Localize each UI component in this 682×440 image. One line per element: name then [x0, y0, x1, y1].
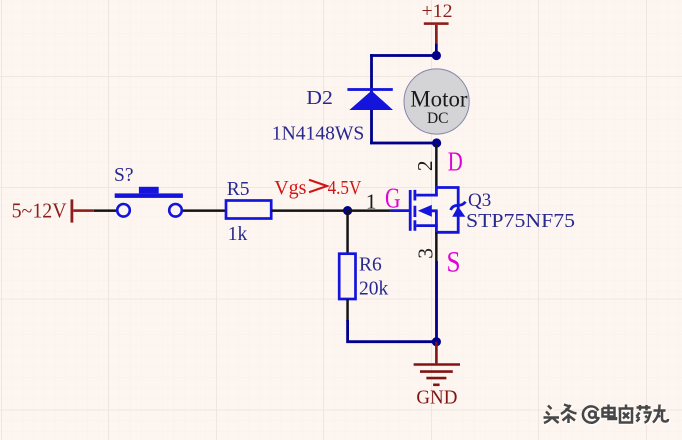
diode D2 [347, 88, 393, 110]
wire: R6 to bottom rail (navy) [348, 320, 437, 342]
wire: top rail to diode branch [370, 54, 437, 57]
transistor Q3 MOSFET symbol [390, 186, 465, 232]
node: ground junction [432, 337, 441, 346]
arrow line + source vertical [431, 211, 438, 233]
motor M (DC motor) [404, 69, 469, 134]
svg-text:20k: 20k [359, 279, 389, 300]
wire: diode branch vertical [370, 54, 373, 144]
svg-text:STP75NF75: STP75NF75 [466, 211, 575, 232]
resistor R6 [339, 254, 355, 299]
wire: R6 bottom black part [346, 299, 349, 321]
svg-text:1N4148WS: 1N4148WS [272, 124, 365, 145]
svg-text:Motor: Motor [410, 86, 467, 112]
wire: source down to ground junction (navy) [435, 261, 438, 342]
ground symbol [414, 342, 460, 385]
label Vgs>4.5V [274, 177, 361, 199]
source link [416, 224, 438, 227]
svg-text:1k: 1k [228, 224, 248, 245]
gate pin lead [390, 209, 409, 212]
body diode triangle [452, 206, 465, 216]
arrow of MOSFET (points to gate) [418, 205, 432, 217]
wire: port to switch [94, 209, 117, 212]
switch S? (pushbutton) [115, 187, 183, 217]
svg-text:R6: R6 [359, 254, 382, 275]
svg-text:2: 2 [413, 160, 437, 171]
svg-text:GND: GND [416, 387, 457, 409]
wire: source pin (black part) [435, 232, 438, 261]
wire: R5 to junction A [271, 209, 347, 212]
svg-text:5~12V: 5~12V [12, 199, 67, 223]
wire: junction A down to R6 [346, 211, 349, 254]
body diode bar (curved) [451, 202, 466, 210]
power port +12 [422, 1, 453, 43]
svg-text:R5: R5 [227, 179, 250, 200]
gate plate [409, 190, 412, 231]
wire: +12 stub down to top junction [435, 43, 438, 56]
svg-text:DC: DC [427, 110, 449, 127]
port 5~12V [12, 199, 94, 223]
channel segments [413, 190, 416, 231]
drain link [416, 194, 438, 197]
svg-text:Q3: Q3 [468, 190, 491, 211]
svg-text:Vgs: Vgs [274, 177, 306, 199]
node: motor bottom junction [432, 138, 441, 147]
svg-text:D: D [448, 147, 463, 177]
svg-text:S?: S? [114, 165, 134, 186]
resistor R5 [226, 201, 271, 219]
wire: bottom rail from diode to motor junction [370, 142, 437, 145]
svg-text:+12: +12 [422, 1, 453, 22]
body diode branch box [435, 188, 458, 233]
svg-text:4.5V: 4.5V [328, 177, 362, 199]
node: top junction [432, 51, 441, 60]
svg-text:3: 3 [414, 248, 438, 259]
svg-text:D2: D2 [306, 88, 333, 109]
wire: drain pin (black) motor junction to MOSFET [435, 143, 438, 188]
node: junction A (gate node) [343, 206, 352, 215]
wire: switch to R5 [183, 209, 226, 212]
drain corner vertical [435, 186, 438, 196]
wire: junction A to gate (black) [348, 209, 391, 212]
svg-text:S: S [447, 246, 461, 279]
